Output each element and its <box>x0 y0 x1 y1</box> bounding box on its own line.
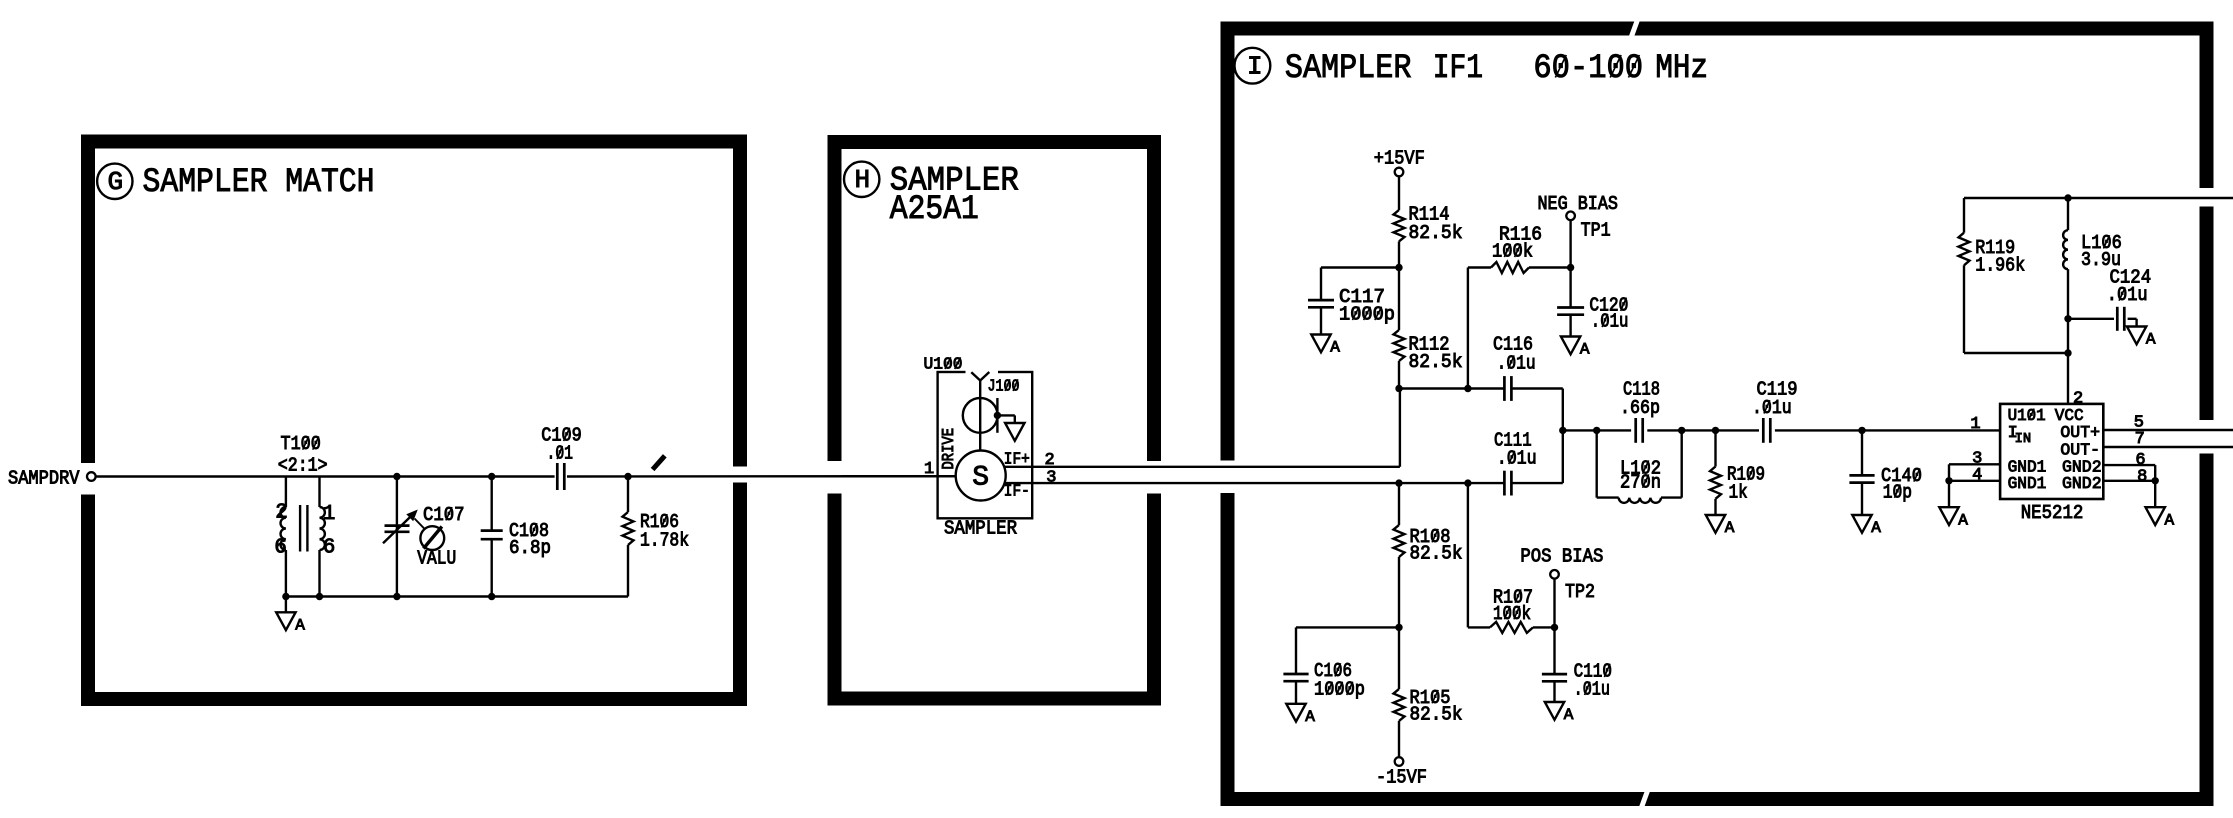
svg-text:1: 1 <box>323 503 336 526</box>
svg-text:A25A1: A25A1 <box>890 191 979 229</box>
svg-text:POS BIAS: POS BIAS <box>1520 545 1603 567</box>
svg-text:DRIVE: DRIVE <box>940 428 959 470</box>
svg-text:IF1: IF1 <box>1433 50 1483 88</box>
svg-text:.01u: .01u <box>1497 352 1536 374</box>
svg-text:.01u: .01u <box>1752 397 1792 419</box>
svg-text:SAMPLER: SAMPLER <box>944 518 1017 540</box>
svg-text:A: A <box>1305 708 1315 726</box>
svg-text:A: A <box>1725 519 1735 537</box>
svg-text:VCC: VCC <box>2055 407 2084 426</box>
svg-text:+15VF: +15VF <box>1374 147 1425 169</box>
svg-text:A: A <box>1330 339 1340 357</box>
svg-text:GND1: GND1 <box>2008 475 2047 494</box>
svg-text:NEG BIAS: NEG BIAS <box>1538 193 1619 215</box>
svg-text:82.5k: 82.5k <box>1409 351 1463 373</box>
svg-text:TP2: TP2 <box>1565 581 1595 603</box>
svg-text:3: 3 <box>1046 468 1056 487</box>
svg-text:1.96k: 1.96k <box>1975 255 2025 277</box>
svg-text:.66p: .66p <box>1620 397 1660 419</box>
svg-text:-15VF: -15VF <box>1376 767 1427 789</box>
svg-text:2: 2 <box>275 502 288 525</box>
svg-text:S: S <box>972 463 989 494</box>
svg-text:1: 1 <box>924 460 934 479</box>
svg-text:1k: 1k <box>1729 481 1748 503</box>
svg-text:<2:1>: <2:1> <box>278 455 328 477</box>
svg-text:NE5212: NE5212 <box>2021 502 2084 524</box>
svg-text:SAMPLER: SAMPLER <box>1285 50 1412 88</box>
svg-text:A: A <box>2146 331 2156 349</box>
svg-text:4: 4 <box>1972 466 1982 485</box>
svg-text:1: 1 <box>1970 415 1980 434</box>
svg-text:82.5k: 82.5k <box>1410 542 1463 564</box>
svg-text:A: A <box>1958 511 1968 529</box>
svg-text:6.8p: 6.8p <box>509 537 551 559</box>
svg-text:IF+: IF+ <box>1004 450 1030 469</box>
svg-text:100k: 100k <box>1492 241 1533 263</box>
svg-text:A: A <box>1564 706 1574 724</box>
svg-text:6: 6 <box>274 537 287 560</box>
svg-text:SAMPDRV: SAMPDRV <box>8 468 80 490</box>
svg-text:.01u: .01u <box>1497 448 1537 470</box>
svg-text:MHz: MHz <box>1655 50 1708 88</box>
svg-text:60-100: 60-100 <box>1533 50 1643 88</box>
svg-text:GND2: GND2 <box>2062 475 2102 494</box>
svg-text:G: G <box>108 167 124 197</box>
svg-text:OUT-: OUT- <box>2060 441 2100 460</box>
svg-text:SAMPLER MATCH: SAMPLER MATCH <box>143 164 375 202</box>
svg-text:C107: C107 <box>423 504 465 526</box>
svg-text:H: H <box>855 165 871 195</box>
svg-text:82.5k: 82.5k <box>1410 703 1463 725</box>
svg-text:TP1: TP1 <box>1581 219 1611 241</box>
svg-text:.01u: .01u <box>1574 679 1610 701</box>
svg-text:OUT+: OUT+ <box>2060 424 2100 443</box>
svg-text:I: I <box>1247 52 1263 82</box>
svg-text:A: A <box>1871 519 1881 537</box>
svg-text:2: 2 <box>1045 451 1055 470</box>
svg-text:270n: 270n <box>1620 471 1661 493</box>
svg-text:A: A <box>2165 511 2175 529</box>
svg-text:100k: 100k <box>1493 603 1531 625</box>
svg-text:6: 6 <box>323 537 336 560</box>
svg-text:7: 7 <box>2135 430 2145 449</box>
svg-text:.01u: .01u <box>1591 311 1629 333</box>
svg-text:IN: IN <box>2015 432 2032 447</box>
svg-text:8: 8 <box>2137 467 2147 486</box>
svg-text:A: A <box>1580 341 1590 359</box>
svg-text:2: 2 <box>2073 390 2083 409</box>
svg-text:1.78k: 1.78k <box>640 529 689 551</box>
svg-text:IF-: IF- <box>1004 483 1030 502</box>
svg-text:82.5k: 82.5k <box>1409 222 1463 244</box>
svg-text:U101: U101 <box>2008 407 2046 426</box>
svg-text:VALU: VALU <box>417 548 456 570</box>
svg-text:.01u: .01u <box>2107 284 2148 306</box>
svg-text:A: A <box>295 617 305 635</box>
